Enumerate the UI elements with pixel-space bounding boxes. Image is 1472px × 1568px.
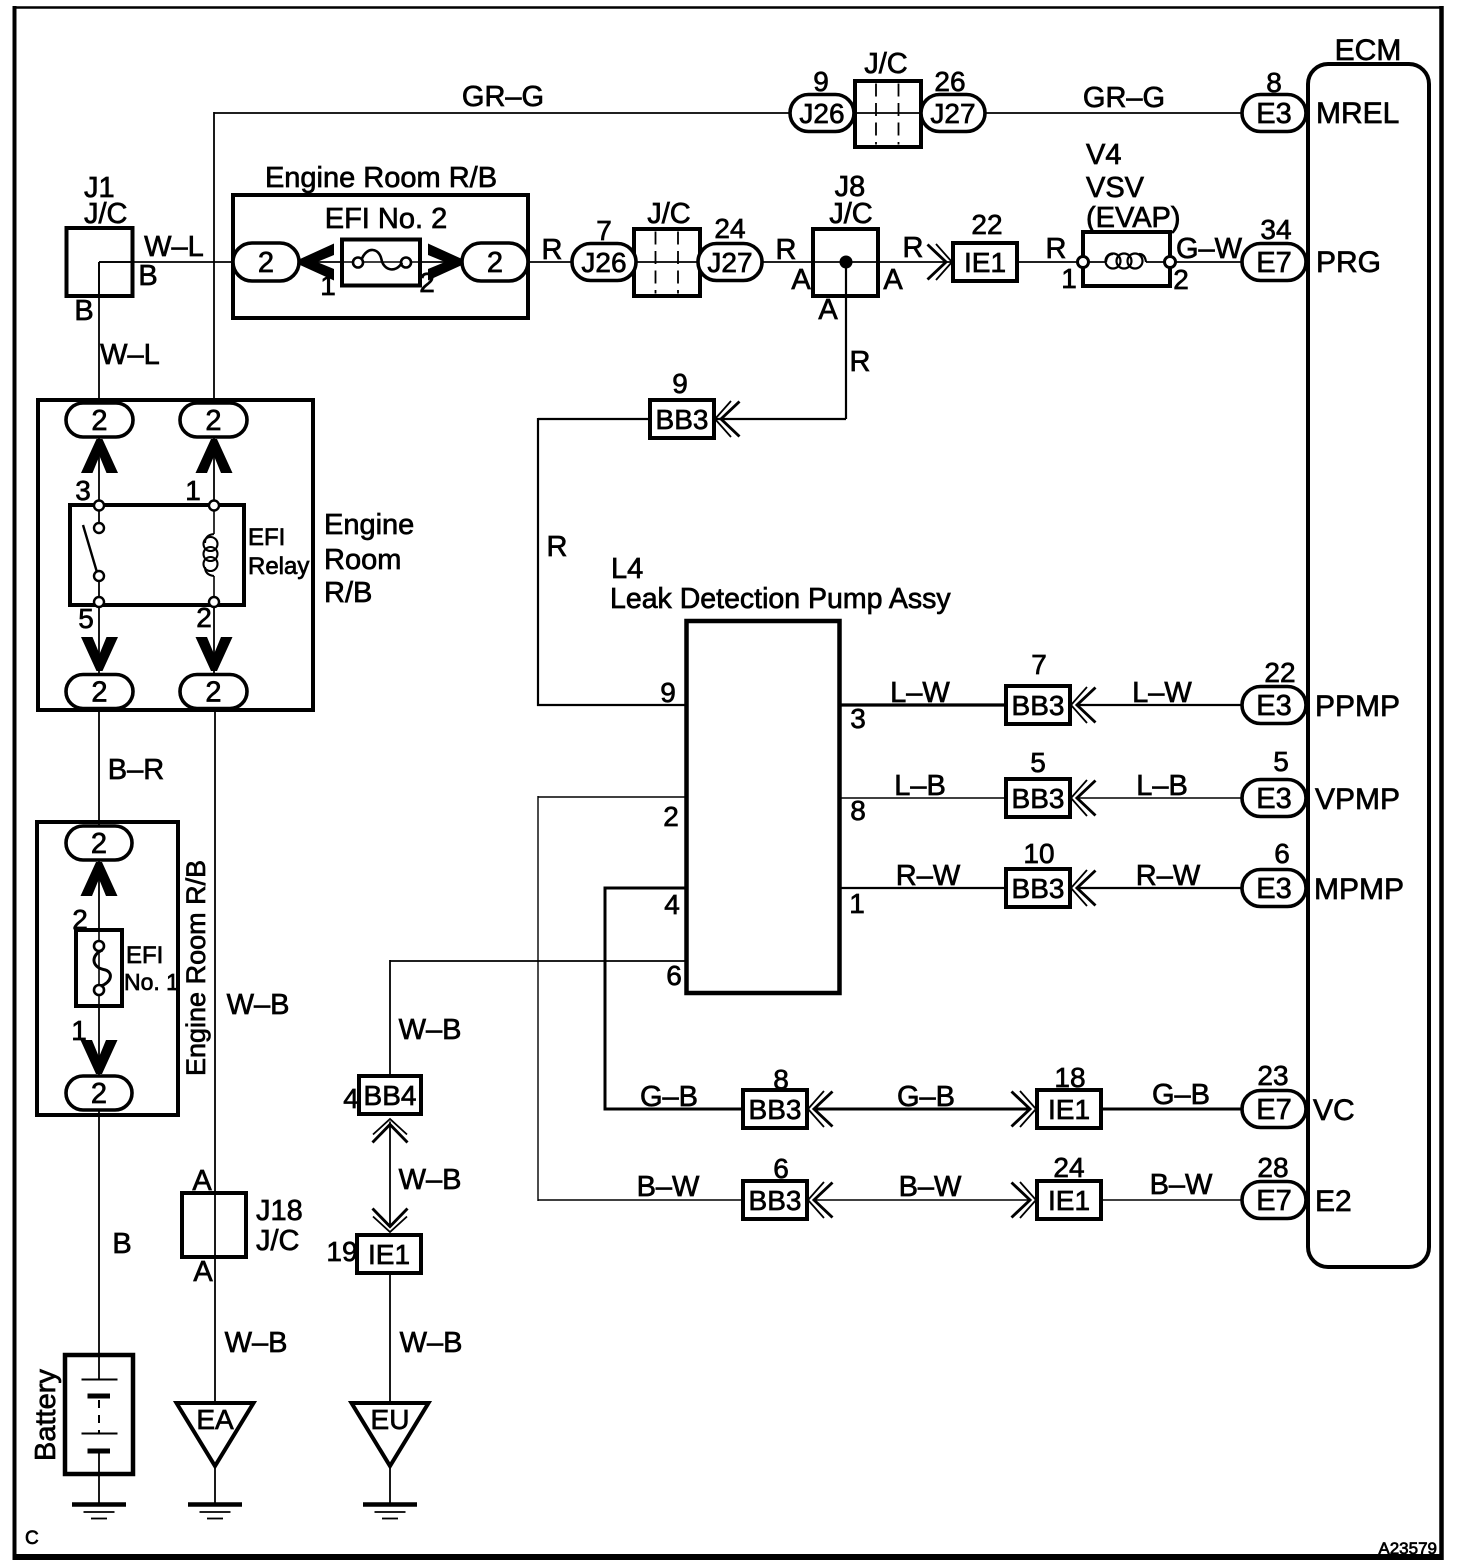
connector IE1 pin 24 [1037, 1181, 1101, 1219]
svg-text:W–B: W–B [400, 1327, 463, 1359]
svg-text:VPMP: VPMP [1315, 783, 1400, 816]
connector IE1 pin 18 [1037, 1090, 1101, 1128]
connector E7 pin 23 (VC) [1242, 1091, 1306, 1128]
svg-text:G–B: G–B [897, 1081, 955, 1113]
page connector into BB3 9 [715, 401, 731, 437]
svg-text:1: 1 [320, 270, 336, 301]
wire battery to ground [98, 1449, 100, 1505]
arrow down to bottom-left connector [81, 637, 118, 671]
svg-text:No. 1: No. 1 [124, 969, 179, 995]
wire B-R relay to EFI No.1 [98, 708, 100, 828]
svg-text:3: 3 [850, 703, 866, 734]
svg-text:C: C [25, 1528, 39, 1549]
svg-text:MREL: MREL [1316, 97, 1399, 130]
page connector into BB3 10 [1071, 870, 1087, 906]
arrow down to bottom-right connector [196, 637, 233, 671]
svg-text:B–W: B–W [899, 1171, 962, 1203]
svg-text:E7: E7 [1256, 1185, 1291, 1217]
svg-text:L–B: L–B [1136, 770, 1188, 802]
wire R to L4 pin 9 [537, 704, 687, 706]
svg-text:W–L: W–L [144, 231, 204, 263]
svg-text:IE1: IE1 [1048, 1094, 1090, 1125]
wire GR-G to E3 [985, 112, 1242, 114]
svg-text:IE1: IE1 [368, 1239, 410, 1270]
ECM block outline [1308, 64, 1429, 1267]
wire J27 to J8 [762, 261, 814, 263]
page connector into BB3 6 [808, 1182, 824, 1218]
svg-text:IE1: IE1 [1048, 1185, 1090, 1216]
wire R drop to BB3 [714, 418, 846, 420]
svg-text:J/C: J/C [84, 198, 128, 230]
J1 internal junction lines [99, 261, 133, 263]
wire GR-G horizontal (MREL net) [214, 112, 790, 114]
svg-text:G–B: G–B [640, 1081, 698, 1113]
svg-text:E3: E3 [1256, 98, 1291, 130]
svg-text:ECM: ECM [1335, 34, 1402, 67]
svg-text:18: 18 [1054, 1062, 1085, 1093]
svg-text:R/B: R/B [324, 577, 372, 609]
svg-text:8: 8 [1266, 67, 1282, 98]
connector IE1 pin 19 [357, 1235, 421, 1273]
svg-text:Engine: Engine [324, 509, 414, 541]
wire G-B IE1 to E7 [1101, 1108, 1242, 1111]
connector J27 (row2, pin 24) [698, 244, 762, 281]
L4 block outline [687, 621, 840, 993]
svg-text:R–W: R–W [1136, 860, 1201, 892]
ground symbol EU [363, 1502, 417, 1507]
page connector into BB3 7 [1071, 687, 1087, 723]
svg-text:EFI No. 2: EFI No. 2 [325, 203, 448, 235]
svg-text:W–B: W–B [225, 1327, 288, 1359]
relay bottom-right connector 2 [180, 675, 247, 709]
svg-text:PRG: PRG [1316, 246, 1381, 279]
svg-text:L–W: L–W [1132, 677, 1192, 709]
junction block J/C (top row) outline [855, 81, 921, 147]
svg-text:W–B: W–B [399, 1164, 462, 1196]
arrow up to EFI No.1 top connector [81, 862, 118, 896]
svg-text:Room: Room [324, 544, 401, 576]
svg-text:EFI: EFI [248, 524, 285, 551]
svg-text:(EVAP): (EVAP) [1086, 202, 1181, 234]
connector BB3 pin 8 [743, 1090, 807, 1128]
EFI No.1 top connector 2 [66, 826, 132, 860]
svg-text:E7: E7 [1256, 247, 1291, 279]
wire B-W IE1 to E7 [1101, 1199, 1242, 1201]
svg-text:BB3: BB3 [1012, 690, 1065, 721]
svg-text:5: 5 [1030, 747, 1046, 778]
svg-text:1: 1 [185, 475, 201, 506]
connector BB3 pin 5 [1006, 779, 1070, 817]
wire R IE1 to VSV [1017, 261, 1083, 263]
wire R drop from J8 node A [845, 262, 847, 419]
border frame [13, 6, 1443, 9]
svg-text:MPMP: MPMP [1314, 873, 1404, 906]
connector E3 pin 5 (VPMP) [1242, 780, 1306, 817]
svg-text:2: 2 [196, 602, 212, 633]
ground triangle EA [177, 1403, 254, 1466]
arrow up to top-right connector [196, 439, 233, 473]
arrow up to top-left connector [81, 439, 118, 473]
connector E3 pin 6 (MPMP) [1242, 870, 1306, 907]
svg-text:2: 2 [258, 247, 274, 279]
svg-text:2: 2 [91, 828, 107, 860]
wire R through J/C row2 [633, 261, 701, 263]
junction block J1 outline [67, 228, 133, 296]
battery [65, 1355, 133, 1474]
wire R to J26 [528, 261, 573, 263]
svg-text:7: 7 [596, 215, 612, 246]
svg-text:4: 4 [664, 889, 680, 920]
svg-text:VC: VC [1313, 1094, 1355, 1127]
wire R BB3 to corner [538, 418, 650, 420]
connector BB3 pin 6 [743, 1181, 807, 1219]
svg-text:J27: J27 [707, 247, 752, 278]
svg-text:34: 34 [1260, 214, 1291, 245]
connector IE1 pin 22 [953, 243, 1017, 281]
svg-text:R–W: R–W [896, 860, 961, 892]
svg-text:A: A [791, 264, 811, 296]
wire B EFI No.1 to battery [98, 1108, 100, 1356]
connector BB3 pin 7 [1006, 686, 1070, 724]
svg-text:9: 9 [660, 677, 676, 708]
fuse EFI No.1 [76, 930, 122, 1006]
wire L4 pin 3 to BB3 (L-W) [840, 703, 1006, 706]
svg-text:5: 5 [78, 603, 94, 634]
svg-text:2: 2 [91, 405, 107, 437]
svg-text:7: 7 [1031, 649, 1047, 680]
wire W-B BB4 to IE1 [389, 1122, 391, 1228]
svg-text:GR–G: GR–G [462, 81, 544, 113]
svg-text:J/C: J/C [829, 198, 873, 230]
page connector up into BB4 [373, 1119, 407, 1135]
svg-text:2: 2 [205, 405, 221, 437]
svg-text:Engine Room R/B: Engine Room R/B [265, 162, 497, 194]
svg-text:A23579: A23579 [1378, 1539, 1437, 1558]
svg-text:G–W: G–W [1176, 233, 1243, 265]
Engine Room R/B (top) box [233, 195, 528, 318]
svg-text:5: 5 [1273, 746, 1289, 777]
svg-text:J18: J18 [256, 1195, 303, 1227]
wire B-W to BB3 [538, 1199, 743, 1201]
svg-text:9: 9 [813, 66, 829, 97]
wire G-B to BB3 [604, 1108, 744, 1111]
svg-text:L4: L4 [611, 553, 643, 585]
wire EFI No.1 internal top [98, 858, 100, 932]
svg-text:28: 28 [1257, 1152, 1288, 1183]
svg-text:J/C: J/C [864, 48, 908, 80]
wire L4 pin 1 to BB3 (R-W) [840, 887, 1006, 889]
svg-text:BB3: BB3 [1012, 783, 1065, 814]
arrow down to EFI No.1 bottom connector [81, 1040, 118, 1074]
svg-text:PPMP: PPMP [1315, 690, 1400, 723]
svg-text:6: 6 [666, 960, 682, 991]
wire L-W BB3 to E3 [1077, 704, 1242, 706]
wire L4 pin 4 horizontal [605, 887, 687, 890]
svg-text:B: B [112, 1228, 131, 1260]
svg-text:A: A [192, 1165, 212, 1197]
svg-text:2: 2 [1173, 264, 1189, 295]
svg-text:BB3: BB3 [749, 1094, 802, 1125]
wire L4 pin 8 to BB3 (L-B) [840, 797, 1006, 799]
fuse EFI No.2 [342, 240, 420, 286]
svg-text:A: A [193, 1256, 213, 1288]
wire pin 6 drop to BB4 (W-B) [389, 960, 391, 1078]
svg-text:2: 2 [663, 801, 679, 832]
wire GR-G relay coil column [213, 437, 215, 506]
svg-text:B: B [74, 295, 93, 327]
svg-text:Engine Room R/B: Engine Room R/B [181, 860, 211, 1076]
wire relay coil to bottom oval [213, 604, 215, 676]
svg-text:J26: J26 [799, 98, 844, 129]
svg-text:E3: E3 [1256, 783, 1291, 815]
wire L-B BB3 to E3 [1077, 797, 1242, 799]
svg-text:B–W: B–W [1150, 1169, 1213, 1201]
connector E3 pin 8 (MREL) [1242, 95, 1306, 132]
junction block J18 outline [182, 1193, 246, 1257]
ground triangle EU [352, 1403, 429, 1466]
junction block J/C (row 2) outline [634, 229, 700, 296]
svg-text:9: 9 [672, 368, 688, 399]
wire R-W BB3 to E3 [1077, 887, 1242, 889]
wire B drop from J1 [98, 262, 100, 404]
wire fuse EFI No.2 to right oval [419, 261, 463, 263]
relay top-right connector 2 [180, 403, 247, 437]
wire W-B IE1 to ground EU [389, 1273, 391, 1404]
VSV (EVAP) valve V4 [1083, 232, 1170, 286]
relay switch [94, 501, 104, 511]
svg-text:B–R: B–R [108, 754, 164, 786]
page connector into IE1 22 [936, 244, 952, 280]
arrow into right connector [428, 244, 462, 281]
svg-text:26: 26 [934, 66, 965, 97]
svg-text:22: 22 [971, 209, 1002, 240]
svg-text:EU: EU [371, 1404, 410, 1435]
svg-text:EFI: EFI [126, 942, 163, 969]
svg-text:1: 1 [1061, 263, 1077, 294]
wire G-W VSV to E7 [1170, 261, 1242, 263]
svg-text:V4: V4 [1086, 139, 1121, 171]
Engine Room R/B (EFI No.1) box [37, 822, 178, 1115]
wire R through J8 [813, 261, 878, 263]
svg-text:6: 6 [1274, 838, 1290, 869]
junction block J8 outline [813, 229, 878, 296]
svg-text:E3: E3 [1256, 873, 1291, 905]
svg-text:J/C: J/C [647, 198, 691, 230]
svg-text:2: 2 [91, 1078, 107, 1110]
page connector into IE1 18 [1020, 1091, 1036, 1127]
svg-text:2: 2 [205, 677, 221, 709]
svg-text:BB3: BB3 [656, 404, 709, 435]
svg-text:GR–G: GR–G [1083, 82, 1165, 114]
relay coil [209, 501, 219, 511]
wire L4 pin 6 horizontal [390, 960, 687, 962]
J8 node A junction dot [840, 256, 853, 269]
wire W-L relay column [98, 437, 100, 506]
svg-text:A: A [818, 294, 838, 326]
relay bottom-left connector 2 [66, 675, 133, 709]
connector J26 (top, pin 9) [790, 95, 854, 132]
wire GR-G vertical drop to EFI relay coil [213, 112, 215, 404]
wire oval to fuse EFI No.2 left [299, 261, 343, 263]
ground symbol battery [72, 1502, 126, 1507]
svg-text:8: 8 [773, 1064, 789, 1095]
svg-text:4: 4 [343, 1083, 359, 1114]
wire W-L inside J1 to Engine Room R/B [99, 261, 234, 263]
svg-text:A: A [883, 264, 903, 296]
svg-text:24: 24 [714, 213, 745, 244]
connector BB3 pin 9 [650, 400, 714, 438]
EFI relay inner box [70, 505, 244, 605]
connector BB4 pin 4 [359, 1076, 421, 1114]
svg-text:W–B: W–B [399, 1014, 462, 1046]
svg-text:Leak Detection Pump Assy: Leak Detection Pump Assy [610, 583, 951, 615]
svg-text:R: R [547, 531, 568, 563]
wire pin 2 vertical drop [537, 796, 539, 1201]
svg-text:8: 8 [850, 795, 866, 826]
svg-text:BB4: BB4 [364, 1080, 417, 1111]
wire R vertical [537, 418, 539, 706]
page connector into BB3 8 [808, 1091, 824, 1127]
wire G-B BB3 to IE1 [814, 1108, 1030, 1111]
svg-text:L–B: L–B [894, 770, 946, 802]
svg-text:EA: EA [196, 1404, 234, 1435]
svg-text:J27: J27 [930, 98, 975, 129]
svg-text:J/C: J/C [256, 1225, 300, 1257]
svg-text:G–B: G–B [1152, 1079, 1210, 1111]
svg-text:L–W: L–W [890, 677, 950, 709]
page connector down into IE1 19 [373, 1217, 407, 1233]
wire EU triangle to ground [389, 1464, 391, 1505]
svg-text:E7: E7 [1256, 1094, 1291, 1126]
connector E3 pin 22 (PPMP) [1242, 687, 1306, 724]
svg-text:22: 22 [1264, 657, 1295, 688]
wire R J8 to IE1 [878, 261, 953, 263]
wire L4 pin 2 horizontal [538, 796, 687, 798]
svg-text:R: R [542, 234, 563, 266]
svg-text:24: 24 [1053, 1152, 1084, 1183]
wire relay switch to bottom oval [98, 604, 100, 676]
Engine Room R/B relay box [38, 400, 313, 710]
connector BB3 pin 10 [1006, 869, 1070, 907]
svg-text:BB3: BB3 [749, 1185, 802, 1216]
arrow into left connector [300, 244, 334, 281]
connector J27 (top, pin 26) [921, 95, 985, 132]
svg-text:1: 1 [849, 888, 865, 919]
svg-text:VSV: VSV [1086, 172, 1145, 204]
svg-text:B–W: B–W [637, 1171, 700, 1203]
svg-text:Relay: Relay [248, 553, 309, 580]
svg-text:R: R [850, 346, 871, 378]
svg-text:10: 10 [1023, 838, 1054, 869]
wire W-B relay to EA [214, 708, 216, 1404]
svg-text:6: 6 [773, 1153, 789, 1184]
wire EFI No.1 internal bottom [98, 1004, 100, 1078]
connector E7 pin 34 (PRG) [1242, 244, 1306, 281]
page connector into IE1 24 [1020, 1182, 1036, 1218]
relay top-left connector 2 [66, 403, 133, 437]
svg-text:R: R [776, 234, 797, 266]
connector J26 (row2, pin 7) [572, 244, 636, 281]
svg-text:R: R [903, 232, 924, 264]
svg-text:B: B [138, 260, 157, 292]
svg-text:BB3: BB3 [1012, 873, 1065, 904]
svg-text:2: 2 [91, 677, 107, 709]
connector 2 (EFI No.2 right) [462, 243, 528, 281]
svg-text:J26: J26 [581, 247, 626, 278]
svg-text:19: 19 [326, 1236, 357, 1267]
svg-text:E2: E2 [1315, 1185, 1352, 1218]
wire pin 4 vertical drop [604, 887, 607, 1111]
J/C top dashed partitions [875, 84, 877, 145]
svg-text:E3: E3 [1256, 690, 1291, 722]
svg-text:23: 23 [1257, 1060, 1288, 1091]
connector 2 (EFI No.2 left) [233, 243, 299, 281]
svg-text:R: R [1046, 233, 1067, 265]
svg-text:2: 2 [487, 247, 503, 279]
page connector into BB3 5 [1071, 780, 1087, 816]
wire GR-G through J/C block [854, 112, 921, 114]
wire B-W BB3 to IE1 [814, 1199, 1030, 1201]
svg-text:W–B: W–B [227, 989, 290, 1021]
ground symbol EA [188, 1502, 242, 1507]
wire EA triangle to ground [214, 1464, 216, 1505]
svg-text:3: 3 [75, 475, 91, 506]
svg-text:Battery: Battery [30, 1369, 62, 1461]
svg-text:IE1: IE1 [964, 247, 1006, 278]
connector E7 pin 28 (E2) [1242, 1182, 1306, 1219]
EFI No.1 bottom connector 2 [66, 1076, 132, 1110]
J/C row2 dashed partitions [655, 232, 657, 294]
svg-text:W–L: W–L [100, 339, 160, 371]
